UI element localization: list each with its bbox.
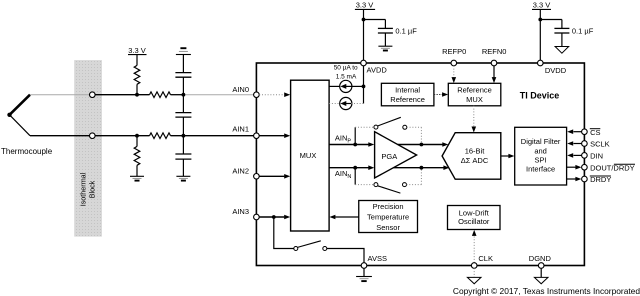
svg-text:Reference: Reference (457, 86, 492, 95)
current source I2 (alternate, gray) (329, 97, 363, 109)
pin DVDD (538, 60, 567, 75)
wire temp sensor to MUX (329, 215, 358, 220)
svg-text:DVDD: DVDD (545, 66, 567, 75)
wire AINN MUX to PGA (329, 165, 374, 179)
node AVDD rail junction (362, 18, 366, 22)
resistor (AIN0 series filter) (150, 92, 171, 98)
resistor (AIN1 series filter) (150, 133, 171, 139)
resistor (AIN0 pull-up) (134, 65, 140, 94)
svg-text:SPI: SPI (535, 156, 547, 165)
svg-text:ΔΣ ADC: ΔΣ ADC (461, 156, 489, 165)
thermocouple (1, 95, 53, 156)
svg-text:DGND: DGND (529, 254, 552, 263)
wire REFP0 to reference MUX (gray dotted) (452, 66, 457, 83)
svg-text:AVDD: AVDD (367, 66, 388, 75)
pin SCLK with wire (567, 140, 609, 149)
junction on isothermal block AIN0 (90, 92, 96, 98)
svg-text:Internal: Internal (395, 86, 420, 95)
low-drift oscillator U7 (448, 206, 501, 230)
svg-text:Precision: Precision (373, 202, 404, 211)
internal reference U3 (381, 83, 434, 106)
switch S1 (PGA bypass top) (355, 117, 421, 144)
svg-text:0.1 µF: 0.1 µF (572, 26, 594, 35)
switch S3 (AIN3 to AVSS) (274, 217, 364, 263)
wire PGA out N to ADC (393, 165, 449, 170)
capacitor C 0.1uF (AVDD bypass) (378, 26, 417, 46)
label 50uA to 1.5mA (334, 64, 358, 80)
wire REFN0 to reference MUX (492, 66, 497, 83)
wire AIN0 to pin (gray) (183, 94, 253, 96)
switch S2 (PGA bypass bottom) (355, 168, 421, 193)
TI device box (256, 63, 584, 266)
ground (below AVSS) (356, 268, 372, 281)
wire AVDD pin to current sources (363, 66, 365, 104)
ADC U2 (16-Bit Delta-Sigma) (442, 133, 501, 180)
svg-text:TI Device: TI Device (520, 90, 560, 100)
wire AIN2 to MUX (259, 174, 290, 179)
svg-text:Temperature: Temperature (367, 213, 409, 222)
svg-text:Block: Block (88, 180, 97, 198)
wire AIN0 to MUX (gray dotted) (259, 92, 290, 97)
node AIN1/bias junction (135, 134, 139, 138)
node PGA out P junction (420, 143, 424, 147)
svg-text:3.3 V: 3.3 V (356, 1, 374, 10)
svg-text:AIN1: AIN1 (232, 125, 249, 134)
wire AIN0 lead (black, through filter) (92, 94, 183, 96)
svg-text:AIN2: AIN2 (232, 166, 249, 175)
pin DOUT/DRDY with wire (567, 163, 635, 172)
pin AIN1 (232, 125, 259, 139)
junction on isothermal block AIN1 (90, 133, 96, 139)
node AINN junction (353, 166, 357, 170)
svg-text:REFN0: REFN0 (482, 47, 507, 56)
power rail 3.3V (AVDD) (355, 1, 375, 61)
wire AINP MUX to PGA (329, 133, 374, 147)
ground (below CLK, triangle) (467, 268, 481, 284)
svg-text:REFP0: REFP0 (442, 47, 466, 56)
wire reference MUX to ADC (gray dotted) (472, 106, 477, 133)
svg-text:Thermocouple: Thermocouple (1, 147, 53, 156)
svg-text:AVSS: AVSS (368, 254, 387, 263)
wire AIN3 to MUX (259, 215, 290, 220)
svg-text:AIN3: AIN3 (232, 207, 249, 216)
capacitor C 0.1uF (DVDD bypass) (554, 26, 593, 46)
node AVDD internal junction (362, 85, 366, 89)
pin AVDD (361, 60, 388, 74)
svg-text:SCLK: SCLK (590, 140, 610, 149)
node DVDD rail junction (538, 18, 542, 22)
node AINP junction (353, 143, 357, 147)
wire AIN1 lead (30, 135, 254, 137)
svg-text:Interface: Interface (526, 165, 555, 174)
wire to AVDD bypass cap (364, 20, 386, 29)
pin DIN with wire (567, 152, 603, 161)
power rail 3.3V (bias) (128, 46, 147, 66)
isothermal block (74, 60, 102, 237)
svg-text:3.3 V: 3.3 V (128, 46, 146, 55)
wire AIN0 lead (gray) (30, 94, 92, 96)
power rail 3.3V (DVDD) (532, 1, 551, 61)
pin CS with wire (567, 128, 600, 137)
pin AIN2 (232, 166, 259, 179)
svg-text:MUX: MUX (300, 151, 317, 160)
svg-text:Reference: Reference (390, 95, 425, 104)
svg-text:DIN: DIN (590, 152, 603, 161)
svg-text:Isothermal: Isothermal (79, 172, 88, 206)
pin DGND (529, 254, 552, 268)
ground (below AIN1 cap) (176, 176, 190, 180)
svg-text:Sensor: Sensor (376, 223, 400, 232)
node AIN3 branch junction (272, 215, 276, 219)
svg-text:AIN0: AIN0 (232, 85, 249, 94)
svg-text:PGA: PGA (381, 152, 397, 161)
MUX U1 (291, 80, 330, 231)
wire CLK to oscillator (gray dotted) (472, 230, 477, 263)
svg-text:0.1 µF: 0.1 µF (395, 26, 417, 35)
wire ADC to digital filter (501, 154, 515, 159)
svg-text:and: and (534, 146, 547, 155)
node AIN0 filter junction (182, 93, 186, 97)
pin AIN0 (232, 85, 259, 97)
wire internal ref to ref mux (434, 92, 448, 96)
wire PGA out P to ADC (398, 142, 449, 147)
pin CLK (471, 254, 493, 268)
current source I1 (50uA-1.5mA) (329, 80, 363, 92)
capacitor (AIN1 to GND) (175, 136, 191, 177)
node PGA out N junction (420, 166, 424, 170)
pin AVSS (361, 254, 387, 268)
ground (below DGND, triangle) (534, 268, 548, 284)
digital filter and SPI interface U5 (515, 127, 567, 185)
pin REFN0 (482, 47, 507, 66)
svg-text:Copyright © 2017, Texas Instru: Copyright © 2017, Texas Instruments Inco… (453, 286, 640, 296)
svg-text:CLK: CLK (478, 254, 493, 263)
pin DRDY with wire (567, 175, 612, 184)
ground (below bias resistor) (130, 176, 144, 180)
svg-text:1.5 mA: 1.5 mA (336, 73, 357, 80)
svg-text:50 µA to: 50 µA to (334, 64, 358, 71)
capacitor (differential AIN0-AIN1) (175, 95, 191, 136)
reference MUX U4 (448, 83, 501, 106)
ground (DVDD bypass, triangle) (555, 47, 569, 54)
capacitor (AIN0 to GND) (175, 55, 191, 95)
svg-text:Oscillator: Oscillator (458, 217, 490, 226)
wire to DVDD bypass cap (540, 20, 562, 29)
ground (above AIN0 cap, inverted) (176, 48, 191, 54)
svg-text:Digital Filter: Digital Filter (521, 137, 561, 146)
svg-text:16-Bit: 16-Bit (465, 147, 486, 156)
pin REFP0 (442, 47, 466, 66)
node AIN0/pull-up junction (135, 93, 139, 97)
ground (AVDD bypass) (378, 46, 392, 50)
pin AIN3 (232, 207, 259, 220)
node AIN1 filter junction (182, 134, 186, 138)
op-amp PGA (375, 132, 417, 178)
svg-text:MUX: MUX (466, 95, 483, 104)
svg-text:3.3 V: 3.3 V (533, 1, 551, 10)
resistor (AIN1 bias to ground) (134, 136, 140, 177)
precision temperature sensor U6 (359, 201, 418, 233)
wire AIN1 to MUX (259, 133, 290, 138)
